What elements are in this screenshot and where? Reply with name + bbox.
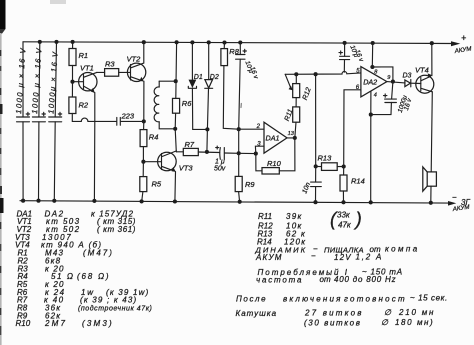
op-amp DA2 <box>356 67 391 99</box>
svg-text:R4: R4 <box>149 133 159 142</box>
svg-text:1,2 А: 1,2 А <box>356 253 384 262</box>
svg-text:R5: R5 <box>152 180 162 189</box>
svg-text:∅: ∅ <box>384 308 392 317</box>
wire node down through 1u junction to R9 <box>238 129 240 176</box>
svg-text:VT2: VT2 <box>127 55 142 64</box>
svg-text:R10: R10 <box>16 319 31 328</box>
transistor VT4 <box>415 41 434 93</box>
svg-text:VT3: VT3 <box>179 164 194 173</box>
svg-text:12V: 12V <box>334 253 352 262</box>
svg-text:(М47): (М47) <box>83 249 114 258</box>
wire bias node 74 horizontal <box>285 72 361 75</box>
resistor R9 <box>235 176 255 203</box>
resistor R5 <box>140 162 162 204</box>
svg-text:R6: R6 <box>182 99 192 108</box>
capacitor C 1000u x16V #2 <box>30 40 45 203</box>
svg-text:∅: ∅ <box>381 318 389 327</box>
diode D2 <box>205 40 219 129</box>
svg-text:39к: 39к <box>286 212 303 221</box>
svg-text:210 мн: 210 мн <box>398 308 435 317</box>
node R8 / C10u / DA1 pin2 junction <box>237 127 241 131</box>
diode D1 <box>188 40 207 129</box>
svg-text:(68 Ω): (68 Ω) <box>77 272 110 281</box>
capacitor C 223 <box>117 112 144 126</box>
svg-text:компа: компа <box>385 245 420 254</box>
transistor VT3 <box>143 151 193 204</box>
resistor R2 <box>69 82 89 122</box>
speaker dynamic head <box>423 92 437 205</box>
svg-text:После: После <box>236 295 267 304</box>
capacitor C 10u 16v #1 <box>236 40 260 129</box>
svg-text:D3: D3 <box>403 73 412 80</box>
svg-text:R10: R10 <box>267 159 282 168</box>
node VT2 emitter / R4 / C223 <box>142 119 146 123</box>
resistor R4 <box>140 121 158 161</box>
node VT3 base node <box>141 160 145 164</box>
node R13 right / DA2 pin6 drop <box>342 164 346 168</box>
svg-text:): ) <box>354 210 362 231</box>
wire VT1 emitter / R2 to 223 cap <box>72 118 116 121</box>
wire DA2 output <box>387 82 405 83</box>
svg-text:R3: R3 <box>105 60 115 69</box>
resistor R11 <box>284 107 300 138</box>
svg-text:R1: R1 <box>79 51 89 60</box>
diode D3 <box>403 73 421 87</box>
svg-text:R2: R2 <box>79 101 89 110</box>
node VT1 base node <box>70 80 74 84</box>
svg-text:50v: 50v <box>214 166 226 173</box>
svg-text:(к 39 ; к 43): (к 39 ; к 43) <box>80 296 137 305</box>
wire bottom ground rail <box>20 201 449 203</box>
inductor L coil <box>154 81 175 129</box>
svg-text:D2: D2 <box>210 74 219 81</box>
transistor VT1 <box>73 64 98 122</box>
svg-text:частота: частота <box>256 275 303 284</box>
svg-text:VT4: VT4 <box>415 66 429 75</box>
wire ground drop from emitter node <box>93 121 95 200</box>
transistor VT2 <box>127 40 146 121</box>
svg-text:1 μ: 1 μ <box>215 159 225 166</box>
parts list left column <box>15 209 152 328</box>
resistor R13 <box>316 154 344 171</box>
scan artifact: left edge black bar <box>0 0 6 29</box>
svg-text:R11: R11 <box>258 212 272 221</box>
capacitor C 10n <box>301 166 321 204</box>
capacitor C 1000u x16V #3 <box>46 40 61 203</box>
svg-text:4: 4 <box>374 92 377 98</box>
resistor R6 <box>173 40 193 152</box>
svg-text:180 мн): 180 мн) <box>395 318 434 327</box>
svg-text:33к: 33к <box>337 211 351 220</box>
svg-text:VT1: VT1 <box>80 64 94 73</box>
resistor R8 <box>221 40 240 129</box>
svg-text:400 до 800 Hz: 400 до 800 Hz <box>334 275 396 284</box>
capacitor C 1u 50v <box>214 146 256 172</box>
svg-text:от: от <box>320 275 331 284</box>
svg-text:включения: включения <box>283 295 343 304</box>
svg-text:2: 2 <box>256 124 261 130</box>
node DA1 pin3 node <box>254 152 258 156</box>
svg-text:DA2: DA2 <box>363 78 377 87</box>
capacitor C 1000u 16v output <box>371 82 414 115</box>
node R7 right / D1D2 drop <box>205 150 209 154</box>
resistor R3 <box>97 60 131 77</box>
resistor R10 <box>256 138 295 174</box>
svg-text:R13: R13 <box>318 154 333 163</box>
capacitor C 1000u x16V #1 <box>14 42 30 203</box>
svg-text:R9: R9 <box>245 180 255 189</box>
svg-text:( кт 361): ( кт 361) <box>97 225 136 234</box>
svg-text:−: − <box>311 252 316 261</box>
wire DA2 pin8 supply <box>371 43 373 68</box>
svg-text:R14: R14 <box>351 177 365 186</box>
wire DA2 pin6 down <box>344 90 361 167</box>
svg-text:(30 витков: (30 витков <box>304 319 361 328</box>
svg-text:47к: 47к <box>338 221 352 230</box>
svg-text:(3М3): (3М3) <box>82 319 114 328</box>
svg-text:(подстроечник 47к): (подстроечник 47к) <box>78 305 152 313</box>
resistor R7 <box>176 140 219 156</box>
svg-text:АКУМ: АКУМ <box>255 253 283 262</box>
svg-text:Катушка: Катушка <box>236 309 278 318</box>
wire DA2 pin4 ground drop <box>370 91 372 202</box>
svg-text:готовност: готовност <box>344 295 407 304</box>
wire D1 D2 node down to R7 node <box>206 129 209 152</box>
svg-text:R7: R7 <box>185 140 195 149</box>
resistor R14 <box>340 167 365 205</box>
op-amp DA1 <box>255 122 296 153</box>
stray mark <box>240 104 242 108</box>
wire top supply rail <box>23 42 452 44</box>
svg-text:+: + <box>461 33 466 43</box>
parts list right column <box>257 210 362 247</box>
svg-text:−: − <box>452 193 457 202</box>
capacitor C 10u 16v #2 <box>339 41 365 72</box>
node D1 D2 junction <box>205 127 209 131</box>
svg-text:27 витков: 27 витков <box>304 309 364 318</box>
svg-text:223: 223 <box>121 112 135 121</box>
resistor R12 trimmer <box>285 74 313 107</box>
svg-text:~ 15 сек.: ~ 15 сек. <box>410 294 448 303</box>
notes text <box>236 245 448 328</box>
svg-text:D1: D1 <box>194 74 203 81</box>
wire node74 down to R13 <box>315 74 317 166</box>
svg-text:2М7: 2М7 <box>44 319 67 328</box>
wire bootstrap hook pin8 to output <box>372 67 393 82</box>
svg-text:9: 9 <box>387 75 390 81</box>
resistor R1 <box>69 40 88 82</box>
node bottom rail arrow 3G AKUM <box>448 201 456 206</box>
wire to DA1 pin 2 <box>239 128 264 130</box>
svg-text:DA1: DA1 <box>266 134 280 143</box>
node top rail arrow + AKUM <box>451 41 460 46</box>
